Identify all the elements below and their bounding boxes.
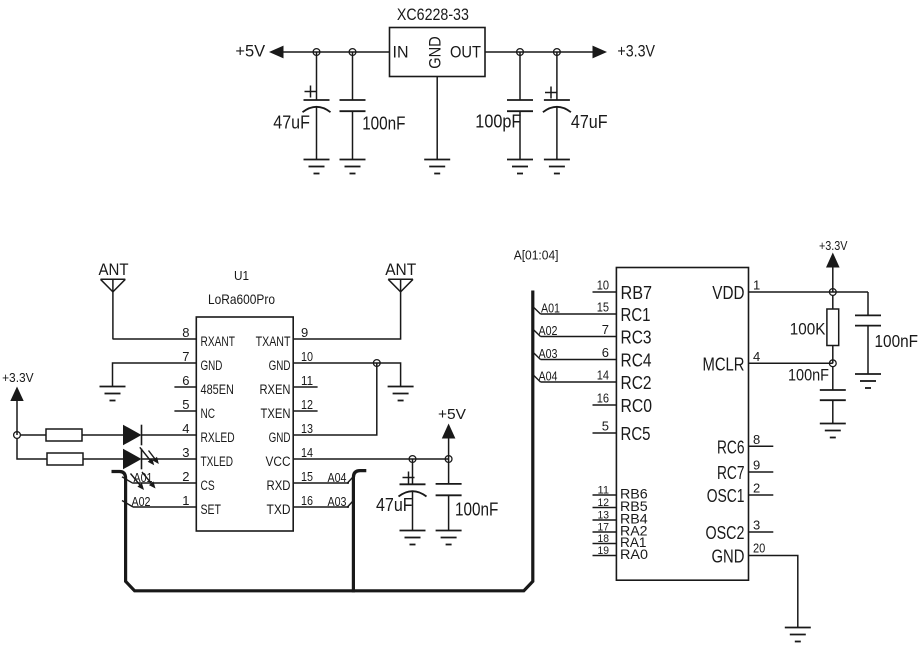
- pin numbers U1 left: [182, 325, 189, 508]
- svg-text:3: 3: [753, 518, 760, 533]
- regulator U XC6228-33 body: [390, 28, 486, 77]
- wire VCC pin 14: [293, 458, 448, 460]
- wire C3 top: [519, 52, 521, 100]
- wire +5V rail to IN: [276, 51, 390, 53]
- svg-text:+5V: +5V: [438, 406, 466, 423]
- svg-text:TXEN: TXEN: [261, 406, 291, 421]
- junction on +5V rail at C2: [349, 49, 356, 56]
- wire junction down to R2 row: [17, 438, 47, 459]
- svg-text:XC6228-33: XC6228-33: [397, 5, 469, 24]
- svg-text:13: 13: [301, 421, 313, 436]
- svg-text:RXANT: RXANT: [201, 334, 235, 349]
- svg-text:6: 6: [182, 373, 189, 388]
- svg-text:16: 16: [301, 493, 313, 508]
- junction (C6 tap): [445, 456, 452, 463]
- svg-text:RA0: RA0: [620, 546, 648, 562]
- ground (under U1 100nF): [436, 531, 462, 545]
- svg-text:LoRa600Pro: LoRa600Pro: [208, 292, 275, 307]
- pin stub RC7 pin 9: [749, 471, 774, 473]
- bus entry A01 (U1 CS): [122, 477, 133, 484]
- pin stub 485EN pin 6: [174, 386, 196, 388]
- svg-text:100nF: 100nF: [362, 114, 405, 134]
- svg-text:9: 9: [753, 458, 760, 473]
- svg-text:1: 1: [182, 493, 189, 508]
- svg-text:2: 2: [182, 469, 189, 484]
- junction (LED resistor tie): [14, 432, 21, 439]
- module U1 body: [196, 317, 293, 531]
- svg-text:16: 16: [597, 391, 609, 406]
- pin stub RXEN pin 11: [293, 386, 317, 388]
- ground (under C3): [507, 160, 533, 174]
- pin numbers MCU right: [753, 278, 765, 556]
- svg-text:14: 14: [301, 445, 313, 460]
- svg-text:RC0: RC0: [621, 395, 653, 416]
- svg-text:6: 6: [602, 345, 609, 360]
- wire C1 top: [316, 52, 318, 100]
- capacitor 100nF (U1 decoupling): [448, 459, 450, 484]
- pin numbers U1 right: [301, 325, 313, 508]
- wire RXD pin 15: [293, 482, 349, 484]
- svg-text:5: 5: [182, 397, 189, 412]
- svg-text:TXD: TXD: [267, 502, 291, 517]
- wire ANT1 vertical: [112, 279, 114, 339]
- svg-text:RXLED: RXLED: [201, 430, 235, 445]
- svg-text:RXEN: RXEN: [260, 382, 291, 397]
- antenna ANT1: [101, 279, 126, 292]
- wire +3.3V flag to VDD: [832, 268, 834, 293]
- svg-text:NC: NC: [201, 406, 216, 421]
- svg-text:12: 12: [301, 397, 313, 412]
- svg-text:A04: A04: [328, 471, 347, 485]
- LED D1 (RXLED): [123, 425, 142, 446]
- pin stub TXEN pin 12: [293, 410, 317, 412]
- svg-text:MCLR: MCLR: [703, 353, 745, 374]
- bus entry A03 (U1 TXD): [347, 501, 353, 508]
- svg-text:+3.3V: +3.3V: [2, 371, 34, 385]
- wire RC3 pin 7: [541, 336, 617, 338]
- wire RC1 pin 15: [541, 313, 617, 315]
- resistor R1 (RXLED): [46, 429, 82, 441]
- svg-text:2: 2: [753, 481, 760, 496]
- svg-text:GND: GND: [426, 36, 444, 69]
- pin names MCU left (lower): [620, 486, 648, 563]
- pin stub RC0 pin 16: [593, 404, 617, 406]
- bus (left hook, bottom run, right riser): [112, 291, 533, 591]
- bus entry A02 (U1 SET): [122, 501, 133, 508]
- svg-text:10: 10: [597, 278, 609, 293]
- wire TXANT pin 9 to ANT2: [293, 279, 400, 339]
- svg-text:RC6: RC6: [717, 436, 745, 457]
- bus entry A04 (MCU RC2): [533, 375, 541, 383]
- wire GND pin 20: [749, 556, 798, 628]
- svg-text:4: 4: [182, 421, 189, 436]
- svg-text:SET: SET: [201, 502, 222, 517]
- svg-text:RXD: RXD: [267, 478, 291, 493]
- pin names MCU right: [703, 282, 745, 567]
- ground (under C1): [304, 160, 330, 174]
- wire C3 bottom: [519, 111, 521, 159]
- pin stub RA0 pin 19: [593, 555, 617, 557]
- svg-text:100K: 100K: [790, 321, 826, 339]
- wire GND pin 7: [113, 363, 197, 387]
- svg-text:CS: CS: [201, 478, 215, 493]
- wire VDD pin 1: [749, 291, 869, 293]
- junction (VDD / R3 top): [829, 289, 836, 296]
- bus entry A04 (U1 RXD): [347, 477, 353, 484]
- capacitor 100nF (input): [340, 100, 366, 111]
- wire SET pin 1: [133, 506, 196, 508]
- wire MCLR pin 4: [749, 362, 833, 364]
- svg-text:7: 7: [602, 322, 609, 337]
- svg-text:A[01:04]: A[01:04]: [514, 248, 559, 263]
- wire C4 bottom: [556, 108, 558, 160]
- svg-text:5: 5: [602, 419, 609, 434]
- ground (U1 pin 7): [100, 387, 126, 401]
- svg-text:47uF: 47uF: [376, 494, 413, 515]
- svg-text:A02: A02: [132, 495, 151, 509]
- capacitor 47uF (output bulk, polarized): [543, 100, 571, 112]
- svg-text:VCC: VCC: [266, 454, 291, 469]
- ground (under VDD cap): [855, 374, 881, 388]
- svg-text:OSC2: OSC2: [706, 522, 745, 543]
- wire ANT1 to RXANT pin 8: [113, 338, 197, 340]
- svg-text:A03: A03: [539, 347, 558, 361]
- svg-text:OSC1: OSC1: [707, 485, 745, 506]
- svg-text:47uF: 47uF: [273, 112, 310, 133]
- ground (under C2): [340, 160, 366, 174]
- svg-text:A02: A02: [539, 324, 558, 338]
- capacitor 100nF (VDD decoupling): [867, 292, 869, 315]
- pin stub RB7 pin 10: [593, 291, 617, 293]
- pin stub RB6 pin 11: [593, 494, 617, 496]
- svg-text:7: 7: [182, 349, 189, 364]
- svg-text:10: 10: [301, 349, 313, 364]
- svg-text:RC7: RC7: [717, 462, 745, 483]
- svg-text:14: 14: [597, 368, 609, 383]
- LED D2 (TXLED): [123, 449, 142, 470]
- svg-text:A04: A04: [539, 370, 558, 384]
- svg-text:GND: GND: [201, 358, 223, 373]
- pin names U1 right: [256, 334, 291, 517]
- wire D2 to TXLED pin 3: [142, 458, 197, 460]
- wire C4 top: [556, 52, 558, 100]
- bus entry A03 (MCU RC4): [533, 352, 541, 360]
- bus entry A01 (MCU RC1): [533, 307, 541, 315]
- wire GND pin 10 to ground: [293, 363, 400, 387]
- capacitor 100nF (MCLR filter): [832, 367, 834, 390]
- svg-text:3: 3: [182, 445, 189, 460]
- junction (MCLR / R3 bottom): [829, 360, 836, 367]
- pin stub RB5 pin 12: [593, 507, 617, 509]
- svg-text:GND: GND: [269, 358, 291, 373]
- junction (pin10/pin13 tie): [373, 360, 380, 367]
- wire +5V flag down: [448, 439, 450, 460]
- svg-text:GND: GND: [712, 546, 745, 567]
- svg-text:15: 15: [301, 469, 313, 484]
- capacitor 47uF (input bulk, polarized): [303, 100, 331, 112]
- svg-text:IN: IN: [393, 43, 409, 62]
- svg-text:1: 1: [753, 278, 760, 293]
- junction on +3.3V rail at C3: [517, 49, 524, 56]
- svg-text:RC5: RC5: [621, 423, 651, 444]
- ground (U1 pin 10): [388, 387, 414, 401]
- junction (C5 tap): [409, 456, 416, 463]
- svg-text:20: 20: [753, 541, 765, 556]
- svg-text:100pF: 100pF: [475, 112, 521, 132]
- pin stub RA2 pin 17: [593, 531, 617, 533]
- power flag +3.3V (right arrow): [593, 46, 608, 59]
- wire C2 top: [352, 52, 354, 100]
- bus entry A02 (MCU RC3): [533, 329, 541, 337]
- wire R2 to D2: [83, 458, 123, 460]
- svg-text:15: 15: [597, 300, 609, 315]
- pin stub RB4 pin 13: [593, 519, 617, 521]
- svg-text:RC2: RC2: [621, 372, 652, 393]
- MCU body: [616, 268, 748, 581]
- wire RC2 pin 14: [541, 381, 617, 383]
- ground (under U1 47uF): [400, 531, 426, 545]
- pin names U1 left: [201, 334, 235, 517]
- svg-text:A01: A01: [541, 302, 560, 316]
- svg-text:485EN: 485EN: [201, 382, 234, 397]
- svg-text:100nF: 100nF: [788, 367, 829, 385]
- wire junction to R1: [20, 434, 46, 436]
- capacitor 47uF (U1 bulk, polarized): [412, 459, 414, 484]
- ground (under C4): [544, 160, 570, 174]
- svg-text:RC1: RC1: [621, 304, 651, 325]
- pin stub RC5 pin 5: [593, 432, 617, 434]
- svg-text:+5V: +5V: [235, 42, 265, 61]
- wire TXD pin 16: [293, 506, 349, 508]
- svg-text:GND: GND: [269, 430, 291, 445]
- wire RC4 pin 6: [541, 359, 617, 361]
- svg-text:RC4: RC4: [621, 350, 652, 371]
- resistor R3 100K (MCLR pullup): [832, 295, 834, 309]
- svg-text:ANT: ANT: [99, 260, 129, 279]
- pin stub OSC2 pin 3: [749, 531, 774, 533]
- svg-text:+3.3V: +3.3V: [617, 42, 655, 61]
- wire C2 bottom: [352, 111, 354, 159]
- pin stub RC6 pin 8: [749, 445, 774, 447]
- wire OUT to +3.3V rail: [485, 51, 594, 53]
- svg-text:TXANT: TXANT: [256, 334, 291, 349]
- pin numbers MCU left: [597, 278, 609, 434]
- svg-text:8: 8: [753, 432, 760, 447]
- svg-text:9: 9: [301, 325, 308, 340]
- svg-text:11: 11: [301, 373, 313, 388]
- svg-text:100nF: 100nF: [455, 500, 498, 520]
- svg-text:8: 8: [182, 325, 189, 340]
- wire D1 to RXLED pin 4: [142, 434, 197, 436]
- ground (MCU GND): [785, 628, 811, 642]
- capacitor 100pF (output): [507, 100, 533, 111]
- wire GND pin 13 branch: [293, 363, 377, 435]
- svg-text:100nF: 100nF: [875, 331, 919, 351]
- svg-text:TXLED: TXLED: [201, 454, 234, 469]
- pin stub RA1 pin 18: [593, 543, 617, 545]
- wire regulator GND pin down: [436, 77, 438, 160]
- svg-text:+3.3V: +3.3V: [819, 239, 848, 253]
- pin stub OSC1 pin 2: [749, 494, 774, 496]
- resistor R2 (TXLED): [47, 453, 83, 465]
- wire R1 to D1: [82, 434, 123, 436]
- svg-text:47uF: 47uF: [571, 111, 608, 132]
- pin names MCU left (upper): [621, 282, 653, 444]
- svg-text:A01: A01: [134, 471, 153, 485]
- svg-text:OUT: OUT: [450, 43, 481, 62]
- pin stub NC pin 5: [174, 410, 196, 412]
- ground (under MCLR cap): [820, 424, 846, 438]
- antenna ANT2: [388, 279, 413, 292]
- junction on +3.3V rail at C4: [554, 49, 561, 56]
- svg-text:ANT: ANT: [385, 260, 416, 279]
- wire CS pin 2: [133, 482, 196, 484]
- power flag +5V (left arrow): [269, 46, 284, 59]
- svg-text:U1: U1: [234, 269, 249, 283]
- svg-text:RC3: RC3: [621, 327, 652, 348]
- svg-text:4: 4: [753, 349, 760, 364]
- junction on +5V rail at C1: [313, 49, 320, 56]
- bus (middle riser with hook): [353, 471, 366, 593]
- svg-text:RB7: RB7: [621, 282, 653, 303]
- wire +3.3V down to junction: [16, 401, 18, 435]
- svg-text:A03: A03: [328, 495, 347, 509]
- wire C1 bottom: [316, 108, 318, 160]
- ground (under regulator GND pin): [424, 160, 450, 174]
- svg-text:VDD: VDD: [712, 282, 744, 303]
